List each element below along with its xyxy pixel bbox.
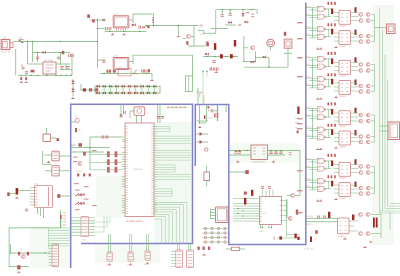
net label vertical AREF [196, 91, 200, 99]
svg-text:OUT[1..16]: OUT[1..16] [304, 249, 314, 251]
diode D8 [148, 69, 150, 72]
net highlight fill (below box A headers) [95, 244, 160, 263]
svg-text:OUT_A: OUT_A [307, 215, 314, 218]
ground GND11 [15, 197, 18, 199]
wire group1 collector net [371, 15, 375, 42]
resistor R28 bold [251, 190, 253, 196]
wire SV4 SV5 feeds [178, 244, 191, 251]
ground GND2 [122, 33, 125, 35]
wire top rail [216, 9, 257, 33]
resistor R25 [207, 43, 209, 47]
ground GND13 [17, 271, 20, 273]
wire big loop [9, 210, 60, 267]
wire group3 gate-to-IC [326, 109, 358, 141]
net label IN4C [306, 179, 311, 181]
resistor R31a bold [331, 9, 333, 15]
pin header SV4 [171, 250, 182, 268]
capacitor C15 pair [142, 69, 146, 72]
diode D3 [31, 70, 35, 73]
transistor T9 [273, 236, 276, 239]
capacitor C24 [208, 109, 218, 112]
capacitor C7 pair [69, 54, 74, 57]
net label small box B top [208, 106, 210, 108]
net labels left of bus [63, 213, 67, 227]
wire +5V sub-rail [60, 69, 72, 71]
NAND gate U4A [317, 158, 326, 163]
svg-text:IN_42: IN_42 [306, 166, 311, 168]
connector X3 [388, 122, 400, 140]
NAND gate U2C [317, 77, 326, 82]
ground GND3 [177, 35, 180, 37]
NAND gate U3D [317, 135, 326, 140]
wire S1 net [271, 47, 292, 67]
wire output steps [375, 28, 400, 214]
capacitor C33 [25, 209, 28, 211]
net label IN3D [306, 135, 311, 137]
capacitor C4 [25, 72, 28, 74]
DC-DC module IC2 [113, 14, 129, 31]
svg-text:PB3: PB3 [63, 222, 67, 224]
svg-text:PB2: PB2 [63, 219, 67, 221]
connector X1 DC jack [1, 37, 13, 54]
capacitor C28 pair [102, 135, 108, 138]
relay driver IC7 [338, 218, 350, 238]
svg-text:IN_21: IN_21 [306, 56, 311, 58]
capacitor C27 pair [157, 117, 164, 119]
capacitor C19 electrolytic [238, 24, 241, 27]
wire group4 gate-to-IC [326, 161, 358, 193]
voltage regulator IC5 [43, 60, 56, 74]
net label smudges box A left [73, 150, 97, 210]
diode D7 [113, 70, 116, 72]
component row below box B [198, 247, 211, 250]
transistor quad Q2a [359, 63, 370, 73]
wire group4 collector net [371, 167, 375, 194]
net labels on box A top edge [167, 107, 187, 109]
wire row 152 [71, 151, 104, 153]
capacitor C38 bold [297, 237, 299, 240]
net label IN1C [306, 27, 311, 29]
wire row 253 [10, 244, 50, 254]
capacitor C12 pair [139, 26, 145, 29]
clamp diode pair D17 [140, 85, 143, 94]
wire jack return [15, 49, 17, 75]
resistor R34a bold [331, 161, 333, 167]
resistor R33a bold [331, 109, 333, 115]
pin header SV3 [49, 244, 59, 267]
wire block1 bottom rail [105, 31, 146, 32]
capacitor C29 pair [234, 152, 241, 154]
solder pad grid JP1 [203, 227, 228, 243]
net label +5V [199, 24, 204, 28]
diode D4 [72, 81, 75, 84]
diode D13 [205, 53, 208, 56]
NAND gate U3A [317, 107, 326, 112]
capacitor C6 [66, 67, 69, 69]
capacitor C5 [60, 67, 63, 69]
capacitor C10 [102, 19, 105, 21]
wire box B mid [197, 134, 209, 142]
optocoupler OK4a [339, 162, 351, 180]
svg-text:16MHz: 16MHz [206, 118, 213, 120]
wire CPU fanout staircase [154, 202, 187, 243]
NAND gate U2B [317, 64, 326, 69]
capacitor C17 [229, 10, 232, 16]
svg-text:IN_14: IN_14 [306, 34, 311, 36]
capacitor C36 bold [279, 236, 282, 239]
resistor R34b bold [331, 181, 333, 187]
svg-text:IN_43: IN_43 [306, 179, 311, 181]
clamp diode pair D19 [153, 85, 156, 94]
ground GND7 [202, 254, 205, 256]
ground GND8 [236, 161, 239, 163]
svg-text:PB0: PB0 [63, 213, 67, 215]
wire to varistor row [80, 84, 95, 90]
label RESET [72, 145, 77, 147]
net label VIN [200, 34, 205, 36]
svg-text:PB1: PB1 [63, 216, 67, 218]
driver IC6 [260, 197, 282, 225]
inductor L2 [152, 18, 154, 23]
wire diode chain [72, 79, 74, 97]
varistor R22 [95, 88, 98, 91]
svg-text:OUT_B: OUT_B [307, 224, 314, 226]
diode pair D16 [200, 132, 204, 144]
wire +5V output [145, 22, 198, 27]
svg-text:IN_22: IN_22 [306, 64, 311, 66]
net label bus corner [304, 249, 314, 251]
wire group2 input chain [306, 58, 318, 88]
DC-DC module IC3 [113, 56, 129, 70]
resistor R2 bold [234, 40, 236, 46]
net label IN4D [306, 186, 311, 188]
transistor quad Q3b [359, 135, 370, 144]
component cluster T4 [76, 171, 91, 176]
transistor T8 cluster [18, 249, 29, 259]
diode D30 [244, 192, 247, 195]
optocoupler OK1a [339, 10, 351, 28]
ground GND9 [272, 161, 275, 163]
diode bank D24 bold [373, 218, 378, 228]
transistor quad Q4b [359, 186, 370, 195]
capacitor C26 pair [120, 111, 125, 117]
NAND gate U3B [317, 115, 326, 120]
transistor quad Q1b [359, 34, 370, 43]
capacitor C9 [92, 19, 95, 22]
resistor R5 [75, 128, 81, 132]
resistor R32b bold [331, 79, 333, 85]
svg-text:ILQ620: ILQ620 [340, 26, 346, 28]
wire block2 bottom rail [100, 73, 152, 74]
ground GND16 [369, 241, 372, 243]
svg-text:ILQ620: ILQ620 [340, 76, 346, 78]
transistor T3 [78, 162, 82, 166]
net label IN3A [306, 107, 311, 109]
wire reset net [71, 137, 122, 170]
resistor R41b bold [355, 30, 357, 36]
wire resistor grid links [90, 154, 122, 170]
net highlight fill (CPU left rows) [96, 176, 124, 218]
wire ground rail [18, 75, 72, 76]
resistor R1 bold [214, 43, 216, 50]
clamp diode pair D11 [103, 85, 106, 94]
resistor row group3 [328, 102, 336, 126]
diode D11 [245, 21, 248, 23]
wire CPU fanout rows upper [154, 127, 191, 197]
net highlight fill (CPU fanout strip) [155, 122, 193, 243]
ground GND6 [198, 126, 201, 128]
wire group1 gate-to-IC [326, 9, 358, 41]
capacitor C16 [221, 10, 224, 17]
svg-text:IC4 MC34063: IC4 MC34063 [252, 162, 266, 164]
wire IC6 top pins [261, 187, 273, 197]
svg-text:IN_33: IN_33 [306, 127, 311, 129]
wire output trunk verticals [380, 8, 388, 213]
clamp diode pair D18 [147, 85, 150, 94]
net label IN1D [306, 34, 311, 36]
inductor L4 [289, 152, 291, 155]
component U2 [284, 32, 286, 36]
net label IN1B [306, 14, 311, 16]
wire group3 input chain [306, 108, 318, 138]
ground group2 [316, 96, 337, 99]
capacitor C14 [102, 61, 105, 63]
NAND gate U2D [317, 84, 326, 89]
LED D31 [205, 148, 208, 151]
switch S1 [284, 39, 292, 48]
svg-text:DC-IN 9V: DC-IN 9V [1, 52, 11, 54]
varistor R20 [83, 88, 86, 91]
NAND gate U3C [317, 127, 326, 132]
net highlight fill (right output strip) [372, 5, 394, 245]
wire clamp row rails [95, 86, 160, 93]
NAND gate U1A [317, 6, 326, 11]
svg-text:RST: RST [72, 145, 77, 147]
wire group1 input chain [306, 8, 318, 38]
jumper JP2 [106, 234, 112, 267]
transistor quad Q4a [359, 165, 370, 175]
resistor R44b bold [355, 182, 357, 188]
svg-text:IN_32: IN_32 [306, 115, 311, 117]
optocoupler OK3b [339, 131, 351, 149]
diode D5 [72, 89, 75, 92]
connector U3 [216, 207, 229, 223]
connector SV6 [52, 151, 59, 161]
NAND gate U4C [317, 179, 326, 184]
transistor quad Q3a [359, 113, 370, 123]
net label IN4A [306, 158, 311, 160]
clamp diode pair D13 [115, 85, 118, 94]
NAND gate U4D [317, 186, 326, 191]
resistor R43a bold [355, 108, 357, 114]
diode D6 [132, 24, 135, 27]
svg-text:ILQ620: ILQ620 [338, 236, 344, 238]
wire bottom-left fan [49, 228, 71, 248]
svg-text:ATMEGA: ATMEGA [134, 168, 143, 171]
wire box B net2 [197, 121, 207, 123]
clamp diode pair D16 [134, 85, 137, 94]
svg-text:IN_24: IN_24 [306, 84, 311, 86]
pin header SV5 [187, 250, 194, 268]
diode arrows D20 D21 [75, 202, 85, 205]
wire IC6 bottom pins [260, 224, 273, 232]
wire IC1 right pin stubs [154, 127, 157, 213]
resistor R43b bold [355, 130, 357, 136]
resistor R27 bold [244, 198, 246, 205]
optocoupler OK2b [339, 81, 351, 99]
capacitor C11 pair [106, 27, 111, 30]
resistor R32a bold [331, 59, 333, 65]
clamp diode pair D15 [128, 85, 131, 94]
wire SV6 SV7 left loop [43, 151, 71, 171]
ground group1 [316, 46, 337, 49]
wire +12V feed [90, 19, 105, 69]
capacitor C22 electrolytic [212, 60, 215, 62]
wire group3 collector net [371, 115, 375, 142]
microcontroller IC1 [125, 123, 154, 223]
wire center drop [243, 36, 255, 62]
capacitor C37 bold [294, 234, 296, 239]
transistor pair Q5a [359, 213, 370, 217]
resistor R15 bold [16, 188, 19, 195]
diode D9 [242, 10, 245, 16]
ground GND15 [363, 246, 366, 248]
wire X4 bottom stubs [38, 208, 44, 219]
resistor R18 bold [352, 215, 354, 221]
clamp diode pair D14 [122, 85, 125, 94]
net label IN3C [306, 127, 311, 129]
crystal Q1 module [130, 107, 145, 123]
svg-text:IN_13: IN_13 [306, 27, 311, 29]
diode D12 [206, 42, 209, 45]
net label IN2A [306, 56, 311, 58]
ground GND1 [111, 33, 114, 35]
transistor quad Q1a [359, 13, 370, 23]
resistor R31b bold [331, 29, 333, 35]
component R16 [7, 192, 10, 196]
connector X2 [387, 24, 396, 34]
optocoupler OK2a [339, 60, 351, 77]
svg-text:IN_31: IN_31 [306, 107, 311, 109]
resistor R42b bold [355, 80, 357, 86]
wire block1 loop [129, 14, 154, 23]
diode D15 [263, 56, 266, 59]
wire drop to switch cluster [178, 25, 179, 35]
svg-text:ILQ620: ILQ620 [340, 147, 346, 149]
component C35 [315, 230, 318, 234]
svg-text:IN_12: IN_12 [306, 14, 311, 16]
transistor T6 [288, 216, 292, 220]
resistor R33b bold [331, 129, 333, 135]
diode arrows D18 D19 [75, 193, 85, 196]
pin header SV1 [81, 216, 88, 241]
svg-text:VCC: VCC [200, 34, 205, 36]
capacitor C39 pair below rail [20, 77, 28, 82]
component D22 [57, 194, 70, 198]
wire group4 input chain [306, 160, 318, 190]
svg-text:ILQ620: ILQ620 [340, 96, 346, 98]
wire mid rail [32, 42, 70, 66]
resistor array R6-R11 [107, 151, 118, 172]
net label IN4B [306, 166, 311, 168]
NAND gate U1C [317, 27, 326, 32]
supply arrow +5V [60, 215, 62, 228]
resistor row group2 [328, 52, 336, 76]
wire regulator in/out [28, 42, 71, 70]
inductor L1 [251, 8, 255, 17]
svg-text:ILQ620: ILQ620 [340, 46, 346, 48]
NAND gate U4B [317, 166, 326, 171]
svg-text:GND: GND [260, 231, 265, 233]
wire IC1 left pin stubs [122, 137, 125, 213]
resistor R14 [296, 210, 298, 215]
wire IC6 right pins [282, 201, 287, 238]
net label IN3B [306, 115, 311, 117]
wire block2 ground drop [151, 73, 153, 78]
capacitor C34 pair [318, 215, 326, 218]
jumper JP4 [144, 234, 150, 266]
NAND gate U2A [317, 56, 326, 61]
wire SV1 stubs [71, 218, 95, 235]
capacitor C20 bold [220, 54, 223, 58]
wire group2 collector net [371, 65, 375, 92]
diode D2 [62, 51, 64, 54]
clamp diode pair D10 [96, 85, 99, 94]
wire right feed [71, 53, 73, 75]
capacitor C13 [147, 25, 149, 28]
resistor R42a bold [355, 57, 357, 63]
capacitor C31 [279, 152, 282, 154]
wire X4 left [10, 191, 30, 194]
filter box L3 [118, 67, 131, 76]
capacitor C3 electrolytic [21, 65, 25, 69]
connector X4 [30, 183, 53, 207]
diode D14 [251, 61, 254, 64]
clamp diode pair D12 [109, 85, 112, 94]
resistor R44a bold [355, 159, 357, 165]
capacitor C30 pair [269, 152, 277, 154]
ground group3 [316, 147, 337, 150]
svg-text:T4 T5: T4 T5 [76, 171, 82, 173]
svg-text:PB4: PB4 [63, 225, 67, 227]
resistor R41a bold [355, 7, 357, 13]
transistor T2 small [71, 116, 80, 123]
net labels left of bus x306 [297, 22, 303, 213]
svg-text:ILQ620: ILQ620 [340, 178, 346, 180]
capacitor C23 row [210, 67, 218, 70]
transistor T10 cluster [183, 26, 206, 46]
capacitor C1 [36, 57, 39, 59]
diode D23 [17, 265, 20, 269]
switcher IC4 [251, 145, 268, 164]
net highlight fill (diode row) [94, 84, 161, 96]
svg-text:IN_23: IN_23 [306, 77, 311, 79]
wire G5 nets [349, 210, 390, 238]
wire box C right nets [287, 151, 300, 219]
bus (CPU box outline) [71, 104, 193, 268]
jumper JP3 [127, 234, 133, 267]
capacitor C18 electrolytic [246, 11, 249, 14]
svg-text:IN_44: IN_44 [306, 186, 311, 188]
ground GND14 [343, 238, 346, 240]
resistor R4 [226, 247, 245, 250]
diode D17 [78, 143, 82, 146]
wire T1 links [244, 48, 256, 62]
svg-text:ILQ620: ILQ620 [340, 198, 346, 200]
varistor R21 [89, 88, 92, 91]
connector X5 partial [43, 128, 59, 142]
ground GND5 [215, 71, 218, 73]
